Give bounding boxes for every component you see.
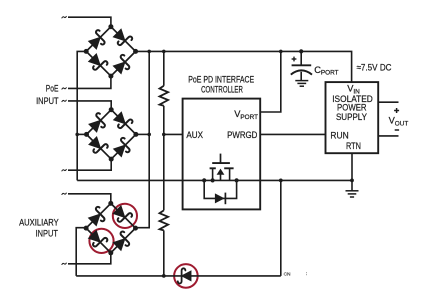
svg-text:SUPPLY: SUPPLY (336, 112, 367, 122)
transistor Q1 drain leg (229, 168, 231, 180)
bridge BR1 (PoE spare-pair) schottky diode bottom-left (87, 53, 108, 74)
wire AC stub to BR1 top (68, 17, 111, 27)
transistor Q1 gate lead (220, 154, 222, 164)
junction bottom wire / resistor bus (162, 274, 166, 278)
wire rail drop to bottom wire (280, 180, 282, 276)
wire VOUT negative stub (378, 135, 398, 137)
bridge BR2 (PoE data-pair) schottky diode top-right (112, 111, 133, 132)
junction positive rail / VPORT drop (279, 50, 283, 54)
junction positive rail / bus A (147, 50, 151, 54)
svg-text::: : (306, 272, 307, 277)
wire positive rail BR1 right to VIN (136, 51, 352, 82)
wire PWRGD to RUN (261, 133, 326, 135)
capacitor CPORT top plate (292, 64, 312, 66)
svg-text:RTN: RTN (346, 141, 361, 151)
highlight circle on BR3 top-right diode (113, 204, 137, 228)
wire VOUT positive stub (378, 101, 398, 103)
bridge BR3 (auxiliary) node bottom corner (108, 250, 113, 255)
transistor Q1 source leg (212, 168, 214, 180)
wire return rail (77, 179, 352, 181)
junction negative bus / BR2 left (75, 133, 79, 137)
bridge BR1 (PoE spare-pair) node top corner (108, 24, 113, 29)
svg-text:AUXILIARY: AUXILIARY (19, 218, 59, 228)
bridge BR2 (PoE data-pair) diamond wires (87, 110, 136, 159)
junction positive rail / resistor bus (162, 50, 166, 54)
bridge BR1 (PoE spare-pair) schottky diode bottom-right (112, 54, 133, 75)
op-amp U1 PoE PD interface controller box (183, 99, 261, 210)
highlight circle on BR3 bottom-left diode (89, 229, 113, 253)
capacitor CPORT curved plate (291, 70, 312, 74)
wire BR2 right corner to bus A (136, 133, 150, 135)
wire bottom return (76, 275, 281, 277)
junction rail / source leg (211, 178, 215, 182)
bridge BR3 (auxiliary) diamond wires (86, 203, 135, 252)
op-amp U2 isolated power supply box (326, 82, 379, 153)
svg-text:CN: CN (284, 271, 291, 277)
transistor Q1 source electrode (210, 167, 216, 169)
diode body diode loop (204, 180, 236, 198)
capacitor CPORT lower stem (300, 72, 302, 81)
wire AC stub to BR1 bottom (PoE) (68, 76, 111, 88)
resistor R1 (160, 86, 169, 106)
wire resistor bus upper segment (163, 51, 165, 85)
svg-text:AUX: AUX (186, 130, 203, 140)
node AC terminal tilde (62, 88, 66, 89)
svg-text:INPUT: INPUT (36, 96, 59, 106)
bridge BR2 (PoE data-pair) node right corner (133, 132, 138, 137)
node AC terminal tilde (62, 100, 66, 101)
diode input-protection schottky (178, 268, 191, 283)
bridge BR1 (PoE spare-pair) schottky diode top-left (87, 29, 108, 50)
transistor Q1 substrate arrow (217, 169, 225, 181)
bridge BR3 (auxiliary) node top corner (108, 201, 113, 206)
bridge BR2 (PoE data-pair) node bottom corner (109, 157, 114, 162)
wire AC stub to BR3 top (auxiliary) (68, 194, 111, 204)
bridge BR2 (PoE data-pair) schottky diode top-left (88, 112, 109, 133)
junction rail / body-diode cathode (235, 178, 239, 182)
highlight circle on protection diode (174, 264, 198, 288)
svg-text:POWER: POWER (337, 103, 367, 113)
wire BR2 left corner to negative bus (77, 133, 86, 135)
wire negative bus BR1 left to BR2 left to return rail (77, 51, 86, 180)
diode body diode symbol (215, 193, 226, 205)
capacitor CPORT stem (300, 51, 302, 65)
wire resistor bus middle segment (163, 106, 165, 211)
wire AC stub to BR2 bottom (68, 159, 111, 170)
junction positive rail / CPORT (299, 49, 303, 53)
ground below CPORT (295, 81, 308, 87)
bridge BR3 (auxiliary) schottky diode bottom-right (112, 231, 133, 252)
bridge BR1 (PoE spare-pair) schottky diode top-right (112, 28, 133, 49)
bridge BR2 (PoE data-pair) schottky diode bottom-left (88, 136, 109, 157)
bridge BR1 (PoE spare-pair) node bottom corner (108, 74, 113, 79)
node AC terminal tilde (62, 193, 66, 194)
junction return rail / RTN ground (350, 179, 354, 183)
label plus output (394, 108, 399, 113)
bridge BR2 (PoE data-pair) node left corner (84, 132, 89, 137)
junction resistor bus / AUX wire (162, 133, 166, 137)
bridge BR1 (PoE spare-pair) node right corner (133, 49, 138, 54)
svg-text:≈7.5V DC: ≈7.5V DC (357, 63, 392, 73)
svg-text:PoE PD INTERFACE: PoE PD INTERFACE (188, 75, 254, 85)
svg-text:INPUT: INPUT (36, 228, 59, 238)
junction bus A / BR2 right (147, 133, 151, 137)
bridge BR1 (PoE spare-pair) node left corner (84, 49, 89, 54)
capacitor CPORT plus sign (292, 57, 297, 62)
bridge BR3 (auxiliary) schottky diode top-left (87, 206, 108, 227)
resistor R2 (160, 210, 169, 230)
bridge BR3 (auxiliary) node left corner (84, 226, 89, 231)
bridge BR3 (auxiliary) schottky diode bottom-left (87, 229, 108, 250)
svg-text:RUN: RUN (330, 130, 348, 140)
node AC terminal tilde (62, 169, 66, 170)
svg-text:CONTROLLER: CONTROLLER (201, 84, 243, 94)
bridge BR2 (PoE data-pair) node top corner (109, 107, 114, 112)
ground main (346, 180, 359, 197)
transistor Q1 gate bar (212, 162, 230, 164)
wire RTN to return rail (351, 153, 353, 180)
bridge BR3 (auxiliary) schottky diode top-right (112, 205, 133, 226)
svg-text:PWRGD: PWRGD (227, 130, 258, 140)
junction rail / body-diode anode (202, 178, 206, 182)
bridge BR3 (auxiliary) node right corner (133, 226, 138, 231)
wire VPORT to positive rail (261, 51, 281, 112)
wire resistor bus lower segment (163, 230, 165, 276)
node AC terminal tilde (62, 263, 66, 264)
transistor Q1 drain electrode (224, 167, 233, 169)
wire bus A down to BR3 right corner (136, 51, 150, 227)
bridge BR1 (PoE spare-pair) diamond wires (86, 27, 135, 76)
wire AC stub to BR3 bottom (auxiliary) (68, 253, 111, 264)
svg-text:PoE: PoE (46, 84, 59, 94)
bridge BR2 (PoE data-pair) schottky diode bottom-right (112, 137, 133, 158)
wire AC stub to BR2 top (INPUT) (68, 101, 111, 110)
wire AUX (164, 133, 183, 135)
wire BR3 left corner to bottom wire (76, 228, 86, 276)
node AC terminal tilde (62, 16, 66, 17)
junction return rail / bottom drop (279, 179, 283, 183)
label minus output (395, 129, 399, 131)
